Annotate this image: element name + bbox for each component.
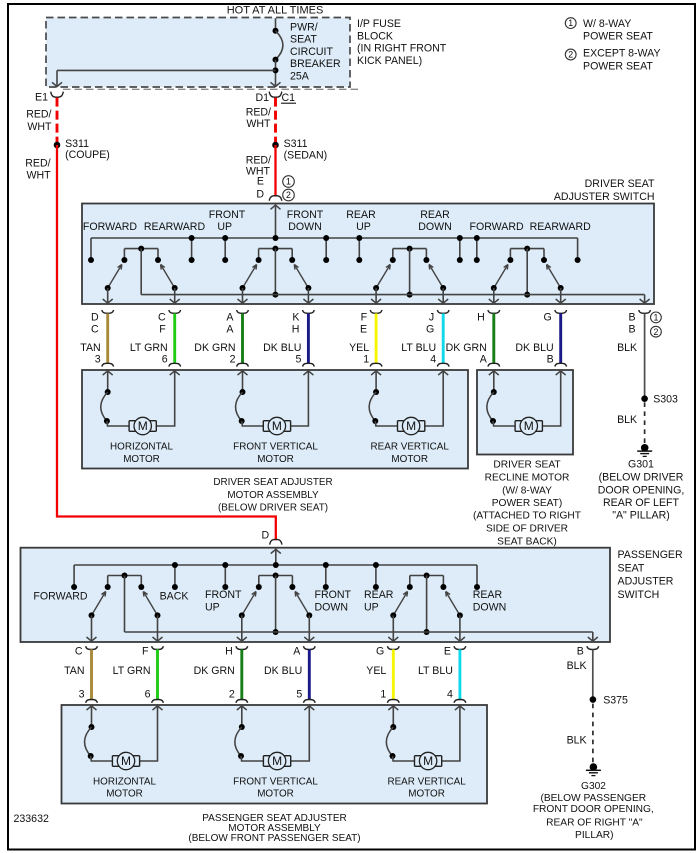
- junction dot breaker output: [273, 67, 279, 73]
- svg-text:RECLINE MOTOR: RECLINE MOTOR: [485, 473, 570, 484]
- svg-text:UP: UP: [356, 221, 371, 233]
- svg-text:PILLAR): PILLAR): [575, 830, 614, 841]
- svg-text:(BELOW PASSENGER: (BELOW PASSENGER: [540, 793, 646, 804]
- label FRONT DOWN (driver): [287, 209, 324, 233]
- svg-text:1: 1: [653, 313, 658, 323]
- svg-text:DK BLU: DK BLU: [515, 342, 553, 354]
- svg-text:5: 5: [296, 689, 302, 701]
- pin G connector (driver switch): [543, 310, 566, 324]
- label REAR DOWN (driver): [418, 209, 452, 233]
- motor front vertical (passenger) with entry arrows: [235, 706, 314, 770]
- value label RED/WHT (right upper): [246, 107, 271, 131]
- svg-text:2: 2: [568, 50, 573, 60]
- contact B+ FORWARD (passenger, bus corner): [73, 565, 75, 587]
- svg-text:I/P FUSE: I/P FUSE: [357, 18, 401, 30]
- wire DK GRN A (driver H): [446, 313, 494, 365]
- svg-text:MOTOR ASSEMBLY: MOTOR ASSEMBLY: [228, 823, 321, 834]
- pin connector into motor (driver A): [237, 363, 249, 375]
- svg-text:6: 6: [145, 689, 151, 701]
- svg-text:MOTOR: MOTOR: [391, 454, 428, 465]
- svg-text:BLK: BLK: [617, 342, 637, 354]
- svg-text:BLOCK: BLOCK: [357, 30, 393, 42]
- svg-text:REAR: REAR: [346, 209, 376, 221]
- svg-text:DOWN: DOWN: [473, 601, 507, 613]
- pin connector into motor (driver F): [370, 363, 382, 375]
- splice S303: [641, 393, 678, 405]
- pin connector into motor (driver C): [169, 363, 181, 375]
- svg-text:3: 3: [95, 354, 101, 366]
- svg-text:3: 3: [79, 689, 85, 701]
- svg-text:MOTOR: MOTOR: [408, 789, 445, 800]
- contact B+ recline FORWARD (driver): [476, 238, 478, 260]
- value label PWR/SEAT CIRCUIT BREAKER 25A: [290, 22, 341, 83]
- fuse block connector face (dashed line C1): [63, 88, 358, 90]
- svg-text:FRONT: FRONT: [209, 209, 246, 221]
- pin connector into motor (passenger C): [86, 700, 98, 711]
- svg-text:G: G: [426, 324, 434, 336]
- wire BLK S303 to G301 (dashed): [617, 402, 645, 443]
- svg-text:FRONT: FRONT: [205, 589, 242, 601]
- svg-text:E: E: [444, 645, 451, 657]
- pin connector into motor (driver H): [488, 363, 500, 375]
- svg-text:S303: S303: [653, 393, 678, 405]
- svg-text:FORWARD: FORWARD: [33, 591, 87, 603]
- svg-text:LT BLU: LT BLU: [401, 342, 436, 354]
- svg-text:CIRCUIT: CIRCUIT: [290, 46, 333, 58]
- svg-text:E1: E1: [35, 91, 48, 103]
- svg-text:S311: S311: [284, 138, 308, 150]
- svg-text:LT BLU: LT BLU: [418, 665, 453, 677]
- pin connector into motor (passenger E): [454, 700, 466, 711]
- driver seat adjuster switch box U1: [82, 204, 654, 305]
- svg-text:HORIZONTAL: HORIZONTAL: [110, 441, 173, 452]
- label DRIVER SEAT ADJUSTER MOTOR ASSEMBLY (BELOW DRIVER SEAT): [213, 477, 332, 513]
- pin C connector (driver switch): [158, 310, 181, 336]
- wire YEL 1 (passenger G): [366, 649, 393, 700]
- svg-text:2: 2: [286, 190, 291, 200]
- motor rear vertical (driver) with entry arrows: [369, 371, 448, 435]
- switch arm FRONT DOWN (passenger): [295, 592, 314, 643]
- wire feed into power bus (passenger switch): [271, 549, 281, 568]
- label PASSENGER SEAT ADJUSTER SWITCH: [618, 549, 683, 601]
- wire RED/WHT S311 sedan to driver switch pin D: [274, 145, 276, 197]
- passenger seat adjuster motor assembly box: [62, 705, 488, 804]
- label DRIVER SEAT ADJUSTER SWITCH: [554, 178, 655, 203]
- pin D connector (driver switch): [269, 196, 282, 201]
- svg-text:C: C: [75, 645, 83, 657]
- wire LT BLU 4 (passenger E): [418, 649, 460, 700]
- svg-text:FRONT DOOR OPENING,: FRONT DOOR OPENING,: [533, 804, 654, 815]
- pin connector into motor (passenger H): [236, 700, 248, 711]
- svg-text:BREAKER: BREAKER: [290, 58, 341, 70]
- wire breaker to E1 branch: [52, 70, 276, 86]
- wire TAN 3 (driver D): [80, 313, 107, 365]
- svg-text:M: M: [272, 754, 282, 768]
- pin H connector (driver switch): [477, 310, 500, 324]
- svg-text:REAR: REAR: [473, 589, 503, 601]
- wire TAN 3 (passenger C): [64, 649, 91, 700]
- svg-text:REAR: REAR: [364, 589, 394, 601]
- svg-text:M: M: [138, 419, 148, 433]
- svg-text:REAR OF LEFT: REAR OF LEFT: [603, 497, 679, 509]
- svg-text:A: A: [226, 324, 234, 336]
- wire power bus (driver switch): [91, 237, 578, 239]
- svg-text:(IN RIGHT FRONT: (IN RIGHT FRONT: [357, 43, 447, 55]
- contact B+ REAR DOWN (passenger, bus corner): [476, 565, 478, 587]
- svg-text:A: A: [293, 645, 301, 657]
- svg-text:MOTOR: MOTOR: [257, 454, 294, 465]
- svg-text:D: D: [91, 312, 99, 324]
- switch arm FORWARD (driver): [103, 265, 122, 305]
- svg-text:FRONT VERTICAL: FRONT VERTICAL: [233, 441, 318, 452]
- contact B+ FRONT UP (passenger): [224, 565, 226, 587]
- wire BLK S375 to G302 (dashed): [567, 704, 593, 764]
- ground contact tee for pair FRONT UP/FRONT DOWN (driver): [259, 248, 293, 250]
- pin A connector (driver switch): [226, 310, 248, 336]
- label REAR VERTICAL MOTOR (passenger): [387, 777, 466, 800]
- svg-text:D: D: [256, 189, 264, 201]
- wire LT GRN 6 (passenger F): [113, 649, 158, 700]
- svg-text:W/ 8-WAY: W/ 8-WAY: [583, 18, 631, 30]
- label FRONT DOWN (passenger): [315, 589, 352, 613]
- wire DK GRN 2 (driver A): [194, 313, 242, 365]
- switch arm FRONT DOWN (driver): [294, 265, 313, 305]
- wire ground bus (driver switch): [141, 295, 649, 304]
- svg-text:2: 2: [653, 327, 658, 337]
- svg-text:REAR OF RIGHT "A": REAR OF RIGHT "A": [546, 817, 643, 828]
- wire RED/WHT E1 to S311 coupe (dashed): [56, 98, 59, 145]
- ground contact tee for pair FRONT UP/FRONT DOWN (passenger): [259, 575, 293, 577]
- svg-text:LT GRN: LT GRN: [113, 665, 151, 677]
- svg-text:1: 1: [286, 177, 291, 187]
- svg-text:F: F: [159, 324, 166, 336]
- wire power bus (passenger switch): [74, 564, 477, 566]
- svg-text:SWITCH: SWITCH: [618, 589, 660, 601]
- pin D1 connector: [255, 92, 281, 104]
- svg-text:(COUPE): (COUPE): [65, 149, 110, 161]
- svg-text:TAN: TAN: [80, 342, 100, 354]
- pin H connector (passenger switch): [225, 645, 248, 657]
- splice S311 (SEDAN): [272, 138, 327, 162]
- svg-text:4: 4: [430, 354, 436, 366]
- svg-text:F: F: [361, 312, 368, 324]
- wire RED/WHT S311 coupe to passenger switch pin D: [57, 145, 276, 540]
- switch arm REAR DOWN (passenger): [446, 592, 465, 643]
- svg-text:1: 1: [568, 18, 573, 28]
- svg-text:J: J: [429, 312, 434, 324]
- svg-text:BLK: BLK: [617, 414, 637, 426]
- switch arm BACK (passenger): [143, 592, 162, 643]
- wire ground bus (passenger switch): [125, 632, 598, 642]
- svg-text:MOTOR: MOTOR: [123, 454, 160, 465]
- svg-text:WHT: WHT: [246, 118, 271, 130]
- pin F connector (passenger switch): [142, 645, 163, 657]
- svg-text:MOTOR ASSEMBLY: MOTOR ASSEMBLY: [227, 490, 319, 501]
- svg-text:WHT: WHT: [26, 170, 51, 182]
- wire RED/WHT D1 to S311 sedan (dashed): [274, 98, 277, 145]
- passenger seat adjuster switch box U2: [21, 548, 611, 642]
- pin B connector (passenger switch): [577, 645, 599, 657]
- svg-text:B: B: [629, 312, 636, 324]
- pin connector into motor (passenger F): [152, 700, 164, 711]
- svg-text:PWR/: PWR/: [290, 22, 318, 34]
- svg-text:DK BLU: DK BLU: [263, 342, 301, 354]
- contact B+ FRONT UP (driver): [224, 238, 226, 260]
- svg-text:RED/: RED/: [26, 109, 51, 121]
- svg-text:MOTOR: MOTOR: [257, 789, 294, 800]
- svg-text:S311: S311: [65, 138, 89, 150]
- ground G301: [637, 444, 652, 456]
- svg-text:REAR VERTICAL: REAR VERTICAL: [387, 777, 466, 788]
- wire DK BLU 5 (passenger A): [264, 649, 309, 700]
- svg-text:"A" PILLAR): "A" PILLAR): [612, 510, 670, 522]
- svg-text:DK GRN: DK GRN: [446, 342, 487, 354]
- svg-text:1: 1: [363, 354, 369, 366]
- motor horizontal (driver) with entry arrows: [101, 371, 180, 435]
- svg-text:FORWARD: FORWARD: [83, 221, 137, 233]
- svg-text:S375: S375: [603, 694, 628, 706]
- value label RED/WHT (left lower): [25, 158, 51, 182]
- label HORIZONTAL MOTOR (passenger): [93, 777, 156, 800]
- pin connector into motor (passenger G): [387, 700, 399, 711]
- svg-text:(SEDAN): (SEDAN): [284, 150, 328, 162]
- pin connector into motor (driver G): [555, 363, 567, 375]
- contact B+ FORWARD (driver, bus corner): [90, 238, 92, 260]
- contact B+ REARWARD (driver): [191, 238, 193, 260]
- contact B+ REAR DOWN (driver): [459, 238, 461, 260]
- label FRONT UP (driver): [209, 209, 246, 233]
- svg-text:G: G: [376, 645, 384, 657]
- wire YEL 1 (driver F): [349, 313, 376, 365]
- label FRONT VERTICAL MOTOR (passenger): [233, 777, 318, 800]
- svg-text:H: H: [225, 645, 233, 657]
- pin F connector (driver switch): [360, 310, 382, 336]
- label REAR UP (passenger): [364, 589, 394, 613]
- legend note 2: EXCEPT 8-WAY POWER SEAT: [565, 48, 660, 73]
- svg-text:B: B: [547, 354, 554, 366]
- pin E1 connector: [35, 91, 63, 103]
- switch arm FORWARD (driver): [489, 265, 508, 305]
- pin J connector (driver switch): [426, 310, 449, 336]
- pin C connector (passenger switch): [75, 645, 98, 657]
- svg-text:H: H: [477, 312, 485, 324]
- ground G302: [586, 763, 601, 775]
- svg-text:BACK: BACK: [160, 591, 189, 603]
- svg-text:DK GRN: DK GRN: [194, 342, 235, 354]
- svg-text:4: 4: [447, 689, 453, 701]
- svg-text:UP: UP: [364, 601, 379, 613]
- svg-text:DRIVER SEAT ADJUSTER: DRIVER SEAT ADJUSTER: [213, 477, 332, 488]
- svg-text:DOWN: DOWN: [418, 221, 452, 233]
- switch arm FORWARD (passenger): [87, 592, 106, 643]
- switch arm REAR UP (passenger): [388, 592, 407, 643]
- pin G connector (passenger switch): [376, 645, 399, 657]
- switch arm REARWARD (driver): [161, 265, 180, 305]
- svg-text:BLK: BLK: [567, 660, 587, 672]
- ground contact tee for pair REAR UP/REAR DOWN (passenger): [410, 575, 444, 577]
- svg-text:SEAT: SEAT: [290, 34, 317, 46]
- svg-text:2: 2: [229, 689, 235, 701]
- svg-text:REAR: REAR: [420, 209, 450, 221]
- svg-text:SIDE OF DRIVER: SIDE OF DRIVER: [486, 524, 568, 535]
- svg-text:(ATTACHED TO RIGHT: (ATTACHED TO RIGHT: [473, 511, 581, 522]
- svg-text:UP: UP: [217, 221, 232, 233]
- value label RED/WHT E D (right): [246, 155, 271, 201]
- svg-text:REARWARD: REARWARD: [530, 221, 592, 233]
- svg-text:B: B: [577, 645, 584, 657]
- svg-text:UP: UP: [205, 601, 220, 613]
- splice S311 (COUPE): [54, 138, 110, 161]
- svg-text:LT GRN: LT GRN: [130, 342, 168, 354]
- label I/P FUSE BLOCK (IN RIGHT FRONT KICK PANEL): [357, 18, 447, 67]
- contact B+ BACK (passenger): [174, 565, 176, 587]
- svg-text:D1: D1: [255, 92, 269, 104]
- wire feed into power bus (driver switch): [271, 204, 281, 241]
- pin D connector (passenger switch): [262, 530, 282, 545]
- label PASSENGER SEAT ADJUSTER MOTOR ASSEMBLY (BELOW FRONT PASSENGER SEAT): [188, 813, 360, 844]
- motor rear vertical (passenger) with entry arrows: [386, 706, 465, 770]
- value label RED/WHT (left upper): [26, 109, 52, 134]
- svg-text:M: M: [524, 419, 534, 433]
- svg-text:M: M: [406, 419, 416, 433]
- pin connector into motor (passenger A): [303, 700, 315, 711]
- motor front vertical (driver) with entry arrows: [236, 371, 314, 435]
- svg-text:RED/: RED/: [246, 107, 271, 119]
- pin connector into motor (driver D): [102, 363, 114, 375]
- pin E connector (passenger switch): [444, 645, 466, 657]
- circuit breaker PWR/SEAT 25A: [271, 18, 283, 87]
- svg-text:B: B: [629, 324, 636, 336]
- svg-text:G: G: [543, 312, 551, 324]
- wire BLK pin B to S375: [567, 649, 593, 699]
- svg-text:KICK PANEL): KICK PANEL): [357, 55, 422, 67]
- svg-text:D: D: [262, 530, 270, 542]
- svg-text:SEAT: SEAT: [618, 562, 645, 574]
- driver seat recline motor box: [477, 370, 573, 455]
- svg-text:PASSENGER: PASSENGER: [618, 549, 683, 561]
- svg-text:TAN: TAN: [64, 665, 84, 677]
- motor horizontal (passenger) with entry arrows: [85, 706, 163, 770]
- switch arm REAR UP (driver): [371, 265, 390, 305]
- I/P fuse block (dashed box): [46, 18, 350, 88]
- svg-text:H: H: [292, 324, 300, 336]
- svg-text:(BELOW DRIVER: (BELOW DRIVER: [599, 472, 684, 484]
- wire DK BLU B (driver G): [515, 313, 560, 365]
- svg-text:(W/ 8-WAY: (W/ 8-WAY: [502, 486, 552, 497]
- svg-text:DOWN: DOWN: [288, 221, 322, 233]
- svg-text:SEAT BACK): SEAT BACK): [497, 537, 557, 548]
- svg-text:25A: 25A: [290, 70, 310, 82]
- svg-text:5: 5: [295, 354, 301, 366]
- svg-text:A: A: [480, 354, 488, 366]
- svg-text:DK GRN: DK GRN: [194, 665, 235, 677]
- contact B+ recline REARWARD (driver, bus corner): [577, 238, 579, 260]
- svg-text:POWER SEAT): POWER SEAT): [492, 498, 563, 509]
- svg-text:G302: G302: [581, 781, 606, 792]
- wire LT GRN 6 (driver C): [130, 313, 175, 365]
- svg-text:DOWN: DOWN: [315, 601, 349, 613]
- svg-text:C: C: [158, 312, 166, 324]
- legend note 1: W/ 8-WAY POWER SEAT: [565, 18, 653, 43]
- svg-text:(BELOW FRONT PASSENGER SEAT): (BELOW FRONT PASSENGER SEAT): [188, 833, 360, 844]
- label G302 (BELOW PASSENGER FRONT DOOR OPENING, REAR OF RIGHT A PILLAR): [533, 781, 654, 841]
- label FRONT UP (passenger): [205, 589, 242, 613]
- svg-text:K: K: [292, 312, 299, 324]
- svg-text:2: 2: [230, 354, 236, 366]
- svg-text:E: E: [257, 176, 264, 188]
- label REAR UP (driver): [346, 209, 376, 233]
- svg-text:C: C: [91, 324, 99, 336]
- contact B+ FRONT DOWN (driver): [325, 238, 327, 260]
- pin D connector (driver switch): [91, 310, 114, 336]
- switch arm FRONT UP (passenger): [237, 592, 256, 643]
- driver seat adjuster motor assembly box: [82, 370, 468, 469]
- pin A connector (passenger switch): [293, 645, 315, 657]
- svg-text:BLK: BLK: [567, 734, 587, 746]
- svg-text:HOT AT ALL TIMES: HOT AT ALL TIMES: [227, 5, 324, 17]
- svg-text:C1: C1: [282, 92, 296, 104]
- svg-text:EXCEPT 8-WAY: EXCEPT 8-WAY: [583, 48, 661, 60]
- svg-text:FRONT: FRONT: [315, 589, 352, 601]
- svg-text:M: M: [272, 419, 282, 433]
- svg-text:M: M: [121, 754, 131, 768]
- pin B connector (driver switch): [629, 310, 651, 336]
- contact B+ REAR UP (passenger): [375, 565, 377, 587]
- svg-text:DK BLU: DK BLU: [264, 665, 302, 677]
- svg-text:233632: 233632: [14, 813, 49, 825]
- wire DK GRN 2 (passenger H): [194, 649, 242, 700]
- wire BLK pin B to S303: [617, 313, 645, 398]
- connector label C1 (underlined): [281, 92, 296, 104]
- ground contact tee for pair FORWARD/REARWARD (driver): [510, 248, 544, 250]
- label FRONT VERTICAL MOTOR (driver): [233, 441, 318, 465]
- ground contact tee for pair REAR UP/REAR DOWN (driver): [393, 248, 427, 250]
- svg-text:YEL: YEL: [366, 665, 386, 677]
- svg-text:HORIZONTAL: HORIZONTAL: [93, 777, 156, 788]
- svg-text:POWER SEAT: POWER SEAT: [583, 31, 653, 43]
- label REAR VERTICAL MOTOR (driver): [371, 441, 450, 465]
- svg-text:REARWARD: REARWARD: [144, 221, 206, 233]
- note markers 1 and 2 at driver switch feed: [283, 176, 295, 201]
- svg-text:M: M: [423, 754, 433, 768]
- svg-text:A: A: [226, 312, 234, 324]
- label G301 (BELOW DRIVER DOOR OPENING, REAR OF LEFT A PILLAR): [598, 459, 685, 522]
- switch arm REAR DOWN (driver): [429, 265, 448, 305]
- splice S375: [590, 694, 628, 706]
- svg-text:FRONT VERTICAL: FRONT VERTICAL: [233, 777, 318, 788]
- svg-text:RED/: RED/: [25, 158, 50, 170]
- wire DK BLU 5 (driver K): [263, 313, 308, 365]
- svg-text:6: 6: [162, 354, 168, 366]
- svg-text:FORWARD: FORWARD: [470, 221, 524, 233]
- svg-text:G301: G301: [628, 459, 654, 471]
- svg-text:F: F: [142, 645, 149, 657]
- switch arm FRONT UP (driver): [238, 265, 257, 305]
- svg-text:FRONT: FRONT: [287, 209, 324, 221]
- svg-text:MOTOR: MOTOR: [106, 789, 143, 800]
- motor recline (driver) with entry arrows: [487, 371, 566, 435]
- label REAR DOWN (passenger): [473, 589, 507, 613]
- note markers 1 and 2 at pin B (driver): [651, 312, 662, 337]
- svg-text:(BELOW DRIVER SEAT): (BELOW DRIVER SEAT): [218, 502, 328, 513]
- svg-text:DRIVER SEAT: DRIVER SEAT: [493, 460, 560, 471]
- pin K connector (driver switch): [292, 310, 315, 336]
- svg-text:YEL: YEL: [349, 342, 369, 354]
- pin connector into motor (driver J): [437, 363, 449, 375]
- svg-text:E: E: [360, 324, 367, 336]
- ground contact tee for pair FORWARD/BACK (passenger): [108, 575, 142, 577]
- contact B+ FRONT DOWN (passenger): [325, 565, 327, 587]
